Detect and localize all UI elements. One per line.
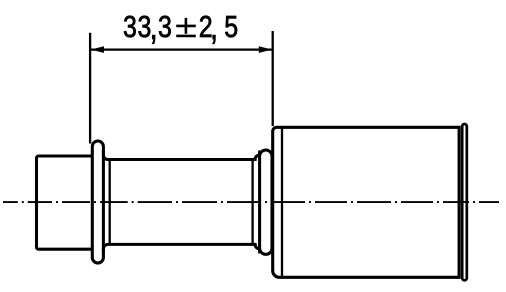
- plus-minus symbol drawn as strokes: [176, 18, 196, 36]
- flange 2 (right stadium): [260, 150, 272, 254]
- svg-text:3: 3: [123, 10, 137, 44]
- arrowhead left: [91, 46, 105, 53]
- svg-text:5: 5: [224, 10, 238, 44]
- centerline: [3, 201, 499, 203]
- extension line left: [89, 33, 91, 144]
- end bead ring: [462, 124, 467, 280]
- tangent edge line right: [251, 160, 253, 244]
- svg-text:,: ,: [210, 6, 218, 47]
- dimension text "33,3 ± 2,5": [123, 6, 238, 47]
- tangent edge line left: [109, 160, 111, 244]
- body (large cylinder): [273, 127, 459, 277]
- dimension line: [91, 48, 272, 50]
- svg-text:3: 3: [158, 10, 172, 44]
- body inner edge line: [281, 127, 283, 277]
- arrowhead right: [259, 46, 273, 53]
- shaft bottom line with fillets: [103, 244, 259, 253]
- left small cylinder: [37, 156, 95, 249]
- extension line right: [272, 31, 274, 126]
- shaft top line with fillets: [103, 151, 259, 160]
- flange 1 (left stadium): [92, 141, 103, 263]
- svg-text:,: ,: [150, 6, 158, 47]
